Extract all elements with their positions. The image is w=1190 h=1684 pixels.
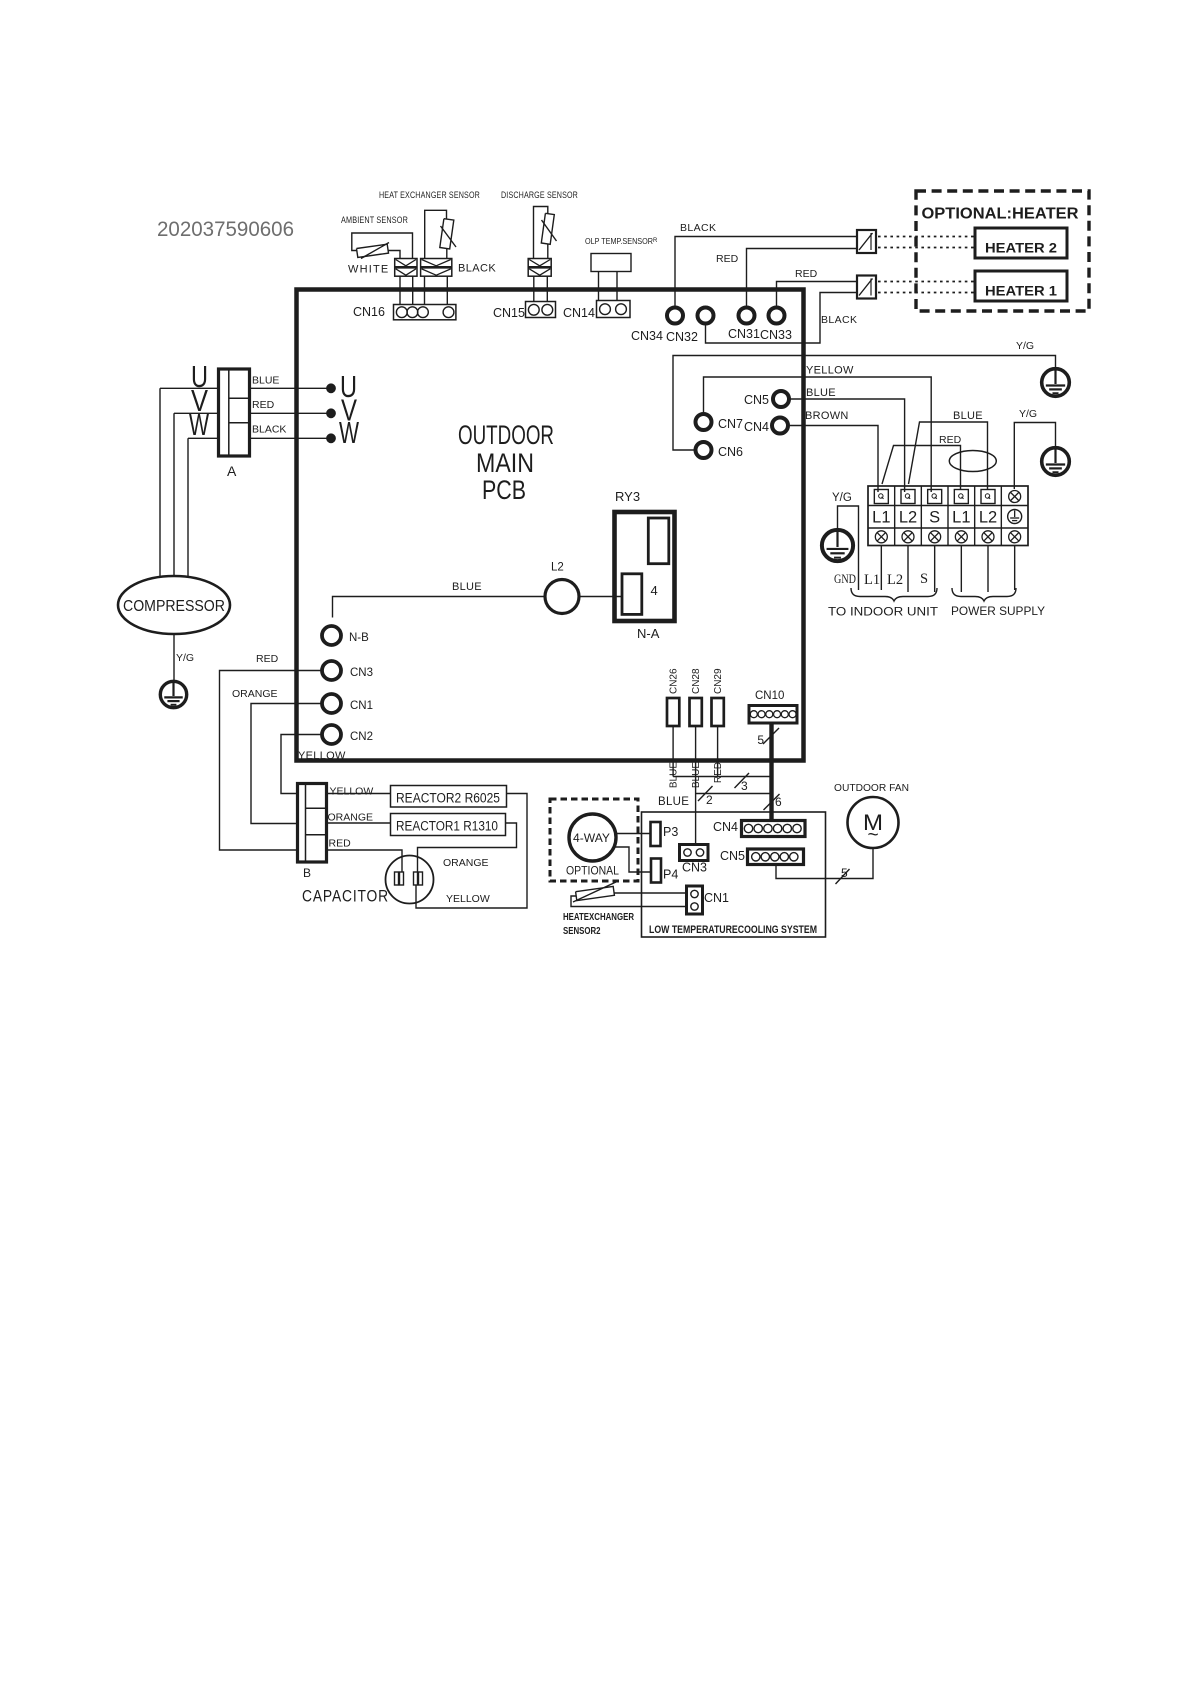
- svg-text:HEATER 2: HEATER 2: [985, 241, 1057, 256]
- svg-text:PCB: PCB: [482, 475, 526, 505]
- svg-text:OUTDOOR: OUTDOOR: [458, 420, 554, 450]
- svg-text:CN15: CN15: [493, 306, 525, 320]
- svg-text:CN7: CN7: [718, 417, 743, 431]
- svg-text:CN26: CN26: [669, 668, 680, 694]
- svg-text:2: 2: [706, 793, 713, 807]
- svg-text:BLUE: BLUE: [806, 387, 836, 399]
- svg-text:BLACK: BLACK: [821, 314, 857, 326]
- svg-text:4-WAY: 4-WAY: [573, 833, 610, 845]
- svg-text:RED: RED: [256, 653, 279, 665]
- svg-text:Y/G: Y/G: [1016, 340, 1034, 352]
- svg-text:CN5: CN5: [720, 849, 745, 863]
- svg-text:CN3: CN3: [350, 667, 373, 679]
- svg-text:W: W: [339, 415, 360, 450]
- svg-text:6: 6: [775, 795, 782, 809]
- svg-text:CN10: CN10: [755, 690, 784, 702]
- svg-text:YELLOW: YELLOW: [298, 750, 346, 762]
- svg-text:TO INDOOR UNIT: TO INDOOR UNIT: [828, 605, 939, 619]
- svg-text:REACTOR2 R6025: REACTOR2 R6025: [396, 791, 500, 806]
- svg-text:RY3: RY3: [615, 489, 640, 504]
- svg-text:OLP TEMP.SENSOR: OLP TEMP.SENSOR: [585, 237, 653, 246]
- svg-text:GND: GND: [834, 572, 856, 586]
- svg-text:CN34: CN34: [631, 329, 663, 343]
- svg-text:~: ~: [867, 825, 878, 846]
- svg-text:OPTIONAL:HEATER: OPTIONAL:HEATER: [922, 206, 1079, 223]
- svg-text:CN16: CN16: [353, 305, 385, 319]
- svg-text:202037590606: 202037590606: [157, 217, 294, 241]
- svg-text:Y/G: Y/G: [1019, 408, 1037, 420]
- svg-text:CN1: CN1: [350, 700, 373, 712]
- svg-text:B: B: [303, 866, 311, 880]
- svg-text:L1: L1: [952, 509, 970, 527]
- svg-text:BROWN: BROWN: [805, 410, 849, 422]
- svg-text:P4: P4: [663, 868, 678, 882]
- svg-text:BLUE: BLUE: [953, 410, 983, 422]
- svg-text:BLUE: BLUE: [658, 796, 689, 808]
- svg-text:ORANGE: ORANGE: [328, 812, 374, 824]
- svg-text:BLUE: BLUE: [252, 375, 279, 387]
- svg-text:CN1: CN1: [704, 891, 729, 905]
- svg-text:LOW TEMPERATURECOOLING SYSTEM: LOW TEMPERATURECOOLING SYSTEM: [649, 924, 817, 936]
- svg-text:COMPRESSOR: COMPRESSOR: [123, 598, 225, 615]
- svg-text:RED: RED: [713, 762, 724, 783]
- svg-text:L2: L2: [551, 562, 564, 574]
- svg-text:N-A: N-A: [637, 626, 660, 641]
- svg-text:CAPACITOR: CAPACITOR: [302, 888, 389, 906]
- svg-text:W: W: [189, 407, 210, 442]
- svg-text:5: 5: [841, 866, 848, 880]
- svg-text:A: A: [227, 463, 237, 479]
- svg-text:RED: RED: [329, 838, 352, 850]
- svg-text:HEAT EXCHANGER SENSOR: HEAT EXCHANGER SENSOR: [379, 190, 480, 200]
- svg-text:BLUE: BLUE: [691, 762, 702, 788]
- svg-text:CN2: CN2: [350, 731, 373, 743]
- svg-text:R: R: [653, 238, 658, 244]
- svg-text:RED: RED: [252, 399, 275, 411]
- svg-text:RED: RED: [939, 434, 962, 446]
- svg-text:CN14: CN14: [563, 306, 595, 320]
- svg-text:L2: L2: [887, 572, 903, 588]
- svg-text:Y/G: Y/G: [832, 492, 852, 504]
- svg-text:CN32: CN32: [666, 330, 698, 344]
- svg-text:P3: P3: [663, 825, 678, 839]
- svg-text:WHITE: WHITE: [348, 264, 389, 276]
- svg-text:L2: L2: [899, 509, 917, 527]
- svg-text:L1: L1: [864, 572, 880, 588]
- svg-text:CN4: CN4: [713, 820, 738, 834]
- svg-text:AMBIENT SENSOR: AMBIENT SENSOR: [341, 214, 408, 225]
- svg-text:BLACK: BLACK: [680, 222, 716, 234]
- svg-text:S: S: [929, 509, 940, 527]
- svg-text:L1: L1: [872, 509, 890, 527]
- svg-text:SENSOR2: SENSOR2: [563, 925, 601, 937]
- svg-text:BLACK: BLACK: [458, 263, 496, 275]
- svg-text:YELLOW: YELLOW: [806, 365, 854, 377]
- svg-text:REACTOR1 R1310: REACTOR1 R1310: [396, 819, 498, 834]
- svg-text:CN6: CN6: [718, 445, 743, 459]
- svg-text:CN33: CN33: [760, 328, 792, 342]
- svg-text:OPTIONAL: OPTIONAL: [566, 866, 620, 878]
- svg-text:CN3: CN3: [682, 861, 707, 875]
- svg-text:N-B: N-B: [349, 632, 369, 644]
- svg-text:BLUE: BLUE: [452, 581, 482, 593]
- svg-text:Y/G: Y/G: [176, 652, 194, 664]
- svg-text:CN28: CN28: [691, 668, 702, 694]
- svg-text:3: 3: [741, 779, 748, 793]
- svg-text:YELLOW: YELLOW: [446, 893, 490, 905]
- svg-text:4: 4: [651, 583, 658, 598]
- svg-text:HEATER 1: HEATER 1: [985, 284, 1058, 299]
- svg-text:POWER SUPPLY: POWER SUPPLY: [951, 604, 1045, 618]
- svg-text:S: S: [920, 571, 928, 587]
- svg-text:CN4: CN4: [744, 420, 769, 434]
- svg-text:RED: RED: [795, 268, 818, 280]
- svg-text:HEATEXCHANGER: HEATEXCHANGER: [563, 911, 634, 923]
- svg-text:BLUE: BLUE: [669, 762, 680, 788]
- svg-text:RED: RED: [716, 253, 739, 265]
- svg-text:L2: L2: [979, 509, 997, 527]
- svg-text:CN29: CN29: [713, 668, 724, 694]
- svg-text:MAIN: MAIN: [476, 448, 534, 478]
- svg-text:CN31: CN31: [728, 327, 760, 341]
- svg-text:ORANGE: ORANGE: [232, 688, 278, 700]
- svg-text:ORANGE: ORANGE: [443, 857, 489, 869]
- svg-text:5: 5: [757, 733, 764, 747]
- svg-text:YELLOW: YELLOW: [330, 786, 374, 798]
- svg-text:DISCHARGE SENSOR: DISCHARGE SENSOR: [501, 190, 578, 200]
- svg-text:BLACK: BLACK: [252, 424, 286, 436]
- svg-text:CN5: CN5: [744, 393, 769, 407]
- svg-text:OUTDOOR FAN: OUTDOOR FAN: [834, 782, 909, 794]
